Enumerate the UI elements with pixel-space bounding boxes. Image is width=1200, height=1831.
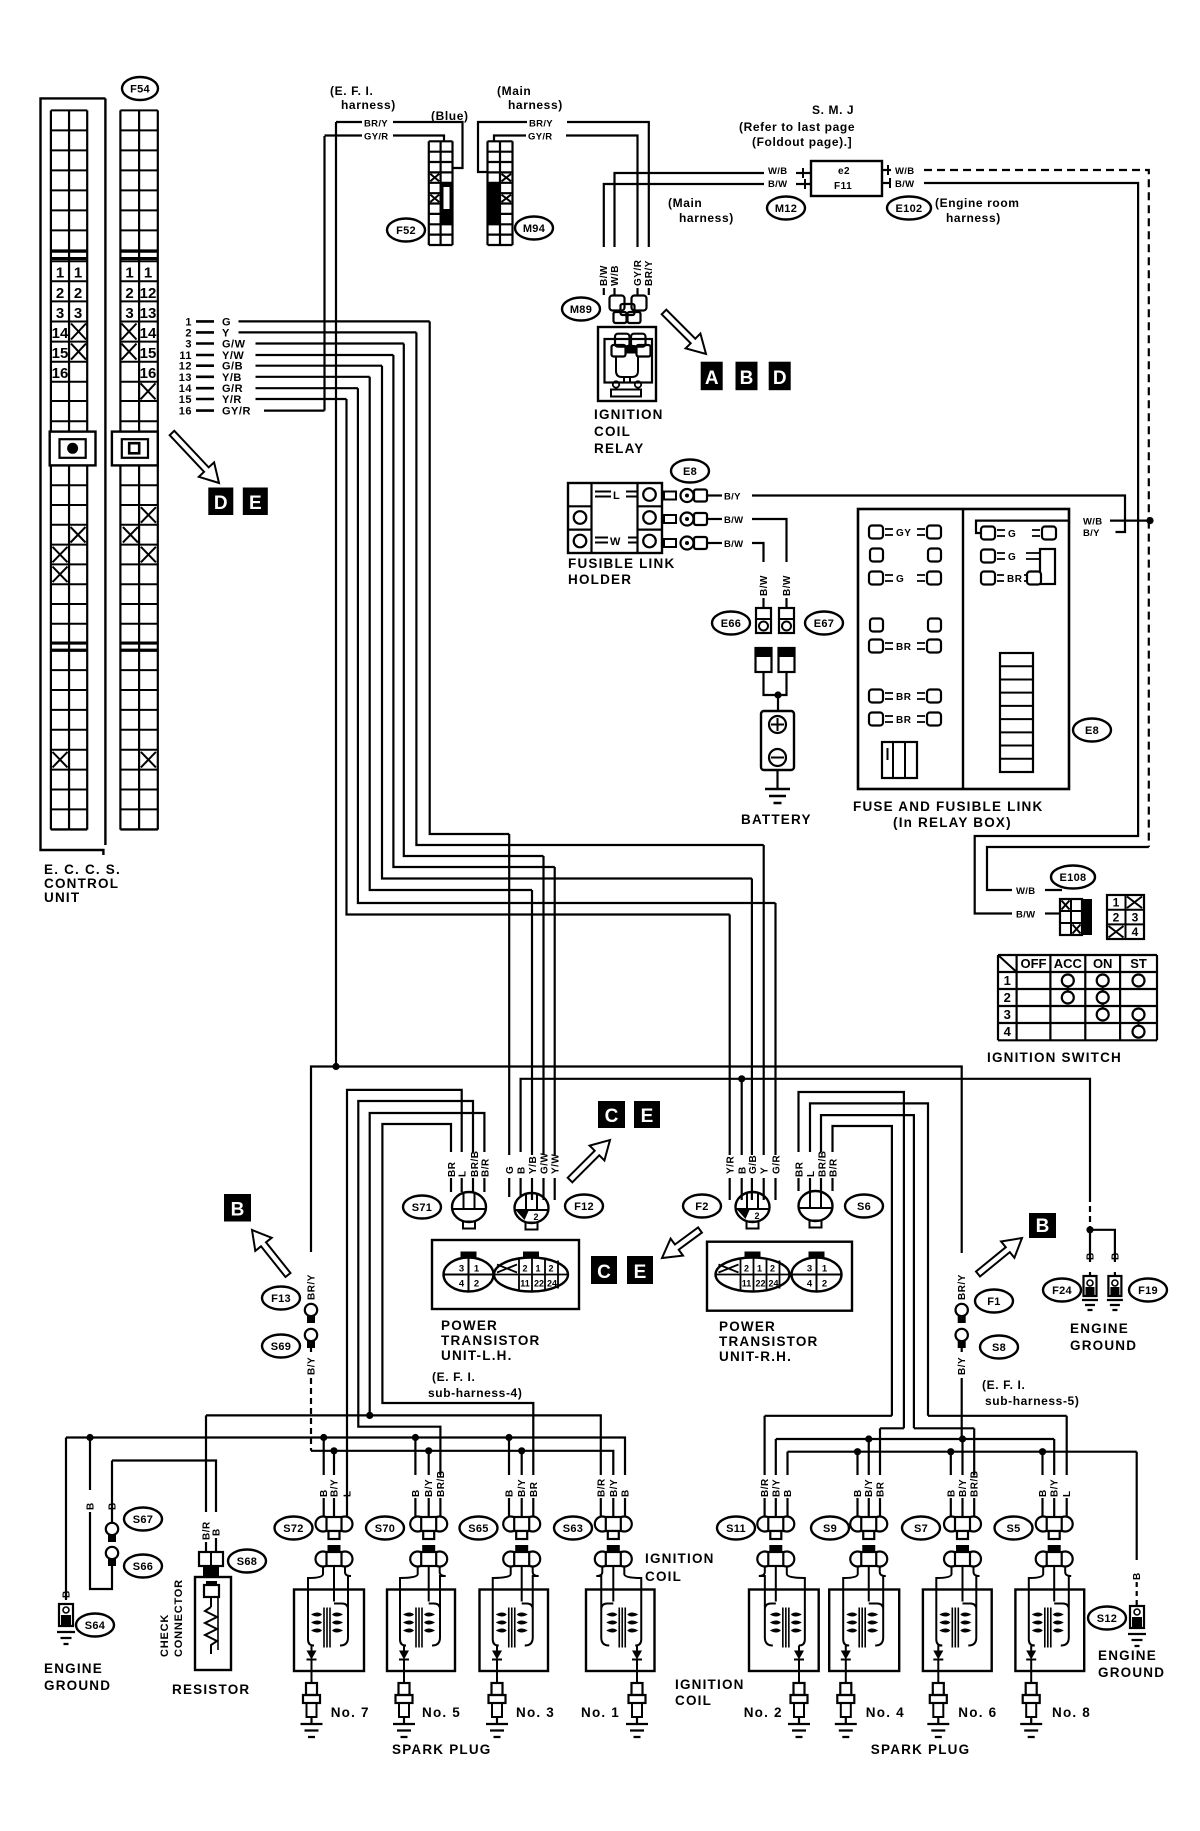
svg-text:BR/Y: BR/Y (957, 1274, 968, 1300)
svg-text:S9: S9 (823, 1523, 837, 1535)
ignition coil No.8 top connector (1036, 1545, 1073, 1567)
svg-text:B: B (517, 1166, 528, 1174)
svg-text:UNIT-R.H.: UNIT-R.H. (719, 1349, 792, 1364)
junction B net right x=857.5 (854, 1448, 861, 1455)
B/R net: resistor to S63 (left bank) (206, 1415, 601, 1475)
connector label M89 (562, 298, 600, 321)
connector label F13 (262, 1287, 300, 1310)
svg-text:(Engine room: (Engine room (935, 196, 1020, 210)
callout box E (right) (627, 1256, 653, 1284)
connector label F12 (565, 1195, 603, 1218)
svg-text:B: B (853, 1489, 864, 1497)
svg-text:E: E (249, 493, 262, 514)
wire from S67 chain to resistor B pin (112, 1461, 216, 1513)
svg-text:C: C (597, 1262, 611, 1283)
ground connector S12 (1128, 1602, 1146, 1646)
svg-text:harness): harness) (946, 211, 1001, 225)
svg-text:RESISTOR: RESISTOR (172, 1682, 250, 1697)
callout box D (769, 362, 791, 391)
junction BR/Y bus to line (332, 1063, 339, 1070)
svg-text:COIL: COIL (675, 1693, 712, 1708)
B branch through S67/S66 to resistor (89, 1438, 91, 1491)
bullet connector F1 (956, 1304, 968, 1323)
E.C.C.S. control unit connector outline (left strip outer box) (41, 98, 106, 855)
svg-text:B: B (411, 1489, 422, 1497)
ignition key switch connector grid (1107, 895, 1144, 939)
bracket joining right fuses (1040, 549, 1055, 584)
callout box A (701, 362, 723, 391)
connector S63 (595, 1517, 632, 1540)
svg-text:B/Y: B/Y (771, 1479, 782, 1497)
svg-text:S69: S69 (271, 1341, 291, 1353)
callout box B (left) (224, 1194, 251, 1222)
ECCS connector right strip pin grid (120, 110, 157, 829)
svg-text:3: 3 (1004, 1007, 1011, 1022)
svg-text:GROUND: GROUND (1070, 1338, 1137, 1353)
junction W/B at S.M.J drop (1146, 517, 1153, 524)
fuse and fusible link box (in relay box) (858, 509, 1069, 789)
junction B net x=509 (505, 1434, 512, 1441)
svg-text:W/B: W/B (768, 166, 787, 177)
svg-text:14: 14 (52, 325, 69, 342)
svg-text:COIL: COIL (645, 1569, 682, 1584)
S71 wires up + n-links to coil drop legs (347, 1090, 462, 1475)
svg-text:G: G (1008, 552, 1016, 563)
svg-text:15: 15 (52, 345, 69, 362)
junction B/R net to S71 leg (366, 1412, 373, 1419)
svg-text:B: B (1036, 1216, 1050, 1237)
connector label S5 (995, 1517, 1033, 1540)
svg-text:2: 2 (770, 1264, 775, 1274)
B/Y net (right bank) (776, 1438, 1054, 1440)
svg-text:S67: S67 (133, 1514, 153, 1526)
svg-text:22: 22 (534, 1279, 544, 1289)
ground terminal F24 (1082, 1272, 1098, 1310)
connector label S6 (845, 1195, 883, 1218)
W/B wire continuing down to E108 (1148, 521, 1150, 847)
3-slot connector at bottom of fuse box (882, 742, 917, 778)
svg-text:B/Y: B/Y (724, 492, 741, 503)
S.M.J right stubs W/B B/W (882, 169, 891, 171)
BR/Y distribution line (line 1) (311, 1067, 962, 1253)
wire BR/Y from harness labels down to BR/Y distribution line (335, 122, 337, 1067)
svg-text:F19: F19 (1138, 1285, 1158, 1297)
svg-text:1: 1 (125, 265, 133, 282)
svg-text:IGNITION: IGNITION (675, 1677, 745, 1692)
svg-text:2: 2 (534, 1212, 539, 1222)
connector label S66 (124, 1555, 162, 1578)
spark plug under ignition coil No.6 (927, 1671, 949, 1737)
svg-text:GROUND: GROUND (1098, 1665, 1165, 1680)
svg-text:sub-harness-4): sub-harness-4) (428, 1386, 522, 1400)
junction B/Y net right x=868.75 (865, 1435, 872, 1442)
lower fusible link connectors above battery (756, 648, 772, 672)
svg-text:1: 1 (757, 1264, 762, 1274)
connector label S12 (1088, 1607, 1126, 1630)
ignition coil No.3 top connector (503, 1545, 540, 1567)
connector label E8 (671, 460, 709, 483)
svg-text:3: 3 (125, 305, 133, 322)
svg-text:B/Y: B/Y (424, 1479, 435, 1497)
arrow to B (left) (252, 1230, 291, 1277)
power transistor unit R.H. (707, 1242, 852, 1311)
svg-text:(Foldout page).]: (Foldout page).] (752, 135, 852, 149)
svg-text:2: 2 (822, 1279, 827, 1290)
svg-text:S8: S8 (992, 1342, 1006, 1354)
svg-text:HOLDER: HOLDER (568, 572, 632, 587)
svg-text:1: 1 (74, 265, 82, 282)
svg-text:E8: E8 (1085, 725, 1099, 737)
connector label F24 (1043, 1279, 1081, 1302)
svg-text:GY/R: GY/R (222, 406, 251, 418)
svg-text:S66: S66 (133, 1561, 153, 1573)
svg-text:No. 2: No. 2 (744, 1705, 783, 1720)
callout box E (243, 488, 268, 516)
svg-text:sub-harness-5): sub-harness-5) (985, 1394, 1079, 1408)
connector label S65 (460, 1517, 498, 1540)
svg-text:G: G (505, 1166, 516, 1174)
junction B net right x=950.8 (947, 1448, 954, 1455)
svg-text:e2: e2 (838, 166, 850, 177)
svg-text:16: 16 (179, 406, 192, 418)
svg-text:1: 1 (1113, 896, 1120, 910)
svg-text:D: D (773, 368, 787, 389)
svg-text:Y/R: Y/R (222, 394, 242, 406)
svg-text:L: L (458, 1170, 469, 1177)
ignition coil No.2 top connector (757, 1545, 794, 1567)
svg-text:16: 16 (52, 365, 69, 382)
svg-text:BR/Y: BR/Y (529, 119, 553, 130)
svg-text:BR: BR (447, 1161, 458, 1177)
connector label S67 (124, 1508, 162, 1531)
connector M89 (610, 296, 647, 324)
svg-text:BR/Y: BR/Y (644, 260, 655, 286)
connector label S63 (554, 1517, 592, 1540)
wire B/Y from E8 to fuse box (707, 494, 722, 496)
svg-text:L: L (1062, 1490, 1073, 1497)
svg-text:BR: BR (1007, 574, 1023, 585)
svg-text:E: E (634, 1262, 647, 1283)
junction B net right x=1042.5 (1039, 1448, 1046, 1455)
drops from right nets to coil connectors (868, 1439, 870, 1475)
svg-text:2: 2 (1113, 911, 1120, 925)
connector label S9 (811, 1517, 849, 1540)
B/Y wire from S69 to left coil B/Y line (310, 1348, 312, 1352)
connector label E108 (1051, 866, 1095, 889)
connector S65 (503, 1517, 540, 1540)
svg-text:B/W: B/W (724, 515, 743, 526)
svg-text:G/B: G/B (748, 1155, 759, 1174)
svg-text:E108: E108 (1060, 872, 1087, 884)
svg-text:24: 24 (768, 1279, 778, 1289)
svg-text:B/W: B/W (724, 539, 743, 550)
svg-text:CONTROL: CONTROL (44, 876, 119, 891)
svg-text:E. C. C. S.: E. C. C. S. (44, 862, 121, 877)
connector E108 grid (1060, 899, 1092, 935)
S.M.J box (811, 161, 882, 196)
svg-text:OFF: OFF (1021, 956, 1047, 971)
spark plug under ignition coil No.4 (835, 1671, 857, 1737)
connector M94 grid (488, 141, 513, 245)
svg-text:14: 14 (140, 325, 157, 342)
svg-text:S70: S70 (375, 1523, 395, 1535)
svg-text:No. 4: No. 4 (866, 1705, 905, 1720)
connector label F52 (387, 219, 425, 242)
svg-text:IGNITION SWITCH: IGNITION SWITCH (987, 1050, 1122, 1065)
svg-text:Y: Y (760, 1167, 771, 1174)
svg-text:Y/B: Y/B (528, 1156, 539, 1174)
svg-text:ST: ST (1130, 956, 1147, 971)
svg-text:B/R: B/R (596, 1478, 607, 1497)
B wire branch to F19 (1090, 1230, 1115, 1262)
svg-text:C: C (605, 1106, 619, 1127)
power transistor unit L.H. (432, 1240, 579, 1309)
svg-text:B/R: B/R (480, 1158, 491, 1177)
ECCS right strip mounting hole (112, 432, 158, 466)
svg-text:GY/R: GY/R (528, 132, 552, 143)
svg-text:S71: S71 (412, 1202, 432, 1214)
svg-text:G/W: G/W (540, 1152, 551, 1174)
svg-text:B/Y: B/Y (1050, 1479, 1061, 1497)
svg-text:BR: BR (529, 1481, 540, 1497)
fuse BR row5 (869, 640, 941, 654)
svg-text:B/W: B/W (759, 575, 770, 596)
bullet connector S69 (305, 1329, 317, 1348)
svg-text:RELAY: RELAY (594, 441, 645, 456)
W/B bracket over top-right fuse (976, 521, 1069, 533)
svg-text:BR: BR (896, 642, 912, 653)
junction B/Y net x=521.7 (518, 1447, 525, 1454)
connector S68 (199, 1552, 223, 1576)
svg-text:2: 2 (1004, 990, 1011, 1005)
svg-text:BR/Y: BR/Y (307, 1274, 318, 1300)
svg-text:ENGINE: ENGINE (44, 1661, 103, 1676)
svg-text:E66: E66 (721, 618, 741, 630)
S6 wires up + n-links to right coil drop legs (799, 1092, 904, 1428)
svg-text:G: G (896, 574, 904, 585)
svg-text:POWER: POWER (441, 1318, 498, 1333)
svg-text:M89: M89 (570, 304, 592, 316)
battery ground (776, 770, 778, 789)
svg-text:BR/B: BR/B (818, 1151, 829, 1177)
svg-text:ACC: ACC (1054, 956, 1083, 971)
svg-text:ENGINE: ENGINE (1098, 1648, 1157, 1663)
svg-text:2: 2 (755, 1211, 760, 1221)
connector label S70 (366, 1517, 404, 1540)
connector S11 (757, 1517, 794, 1540)
svg-text:4: 4 (807, 1279, 813, 1290)
connector label F1 (975, 1290, 1013, 1313)
connector S72 (316, 1517, 353, 1540)
spark plug under ignition coil No.2 (788, 1671, 810, 1737)
bullet connector S66 (106, 1547, 118, 1566)
E8 terminal B/Y (664, 489, 707, 502)
svg-text:W/B: W/B (895, 166, 914, 177)
ECCS right strip pin numbers and X marks (122, 265, 157, 383)
svg-text:SPARK PLUG: SPARK PLUG (392, 1742, 492, 1757)
B/Y wire from S8 down to right coil B/Y line (961, 1348, 963, 1352)
svg-text:24: 24 (547, 1279, 557, 1289)
connector label F2 (683, 1195, 721, 1218)
wires dropping to F12 connector (G, G/W, Y/W, Y/B) (508, 834, 510, 1155)
svg-text:GY/R: GY/R (364, 132, 388, 143)
svg-text:IGNITION: IGNITION (594, 407, 664, 422)
svg-text:B: B (231, 1200, 245, 1221)
svg-text:COIL: COIL (594, 424, 631, 439)
svg-text:B: B (212, 1528, 223, 1536)
svg-text:BR: BR (795, 1161, 806, 1177)
callout box B (right) (1029, 1213, 1056, 1238)
svg-text:B: B (62, 1590, 73, 1598)
svg-text:S5: S5 (1006, 1523, 1020, 1535)
svg-text:B/Y: B/Y (330, 1479, 341, 1497)
svg-text:F11: F11 (834, 181, 852, 192)
connector label F54 (122, 77, 158, 100)
svg-text:B: B (621, 1489, 632, 1497)
spark plug under ignition coil No.8 (1020, 1671, 1042, 1737)
svg-text:UNIT-L.H.: UNIT-L.H. (441, 1348, 513, 1363)
svg-text:BR/B: BR/B (970, 1471, 981, 1497)
ignition coil No.1 top connector (595, 1545, 632, 1567)
connector label S64 (76, 1614, 114, 1637)
wire B/W from E8 down to E66 (707, 542, 722, 544)
svg-text:B/W: B/W (782, 575, 793, 596)
fuse BR right (981, 572, 1041, 586)
svg-text:3: 3 (807, 1264, 812, 1275)
connector label M94 (515, 217, 553, 240)
svg-text:B/Y: B/Y (517, 1479, 528, 1497)
junction B/Y net right x=962.5 (959, 1435, 966, 1442)
B wire from B net to S64 engine ground (65, 1438, 67, 1601)
svg-text:15: 15 (179, 394, 192, 406)
svg-text:F13: F13 (271, 1293, 291, 1305)
bullet connector S67 (106, 1523, 118, 1542)
svg-text:harness): harness) (341, 98, 396, 112)
svg-text:B/W: B/W (1016, 910, 1035, 921)
connector label E66 (712, 612, 750, 635)
svg-text:(E. F. I.: (E. F. I. (982, 1378, 1025, 1392)
connector label S11 (717, 1517, 755, 1540)
svg-text:1: 1 (474, 1264, 480, 1275)
svg-text:SPARK PLUG: SPARK PLUG (871, 1742, 971, 1757)
junction B/Y net x=334 (330, 1447, 337, 1454)
fuse BR row6 (869, 690, 941, 704)
svg-text:F54: F54 (130, 84, 150, 96)
B/R to S11 and L to S5 line (right bank) (765, 1415, 892, 1417)
svg-text:4: 4 (1132, 925, 1139, 939)
connector S7 (944, 1517, 981, 1540)
fusible link holder (568, 483, 662, 553)
svg-text:CHECK: CHECK (159, 1614, 171, 1657)
svg-text:GY: GY (896, 528, 911, 539)
fuse G left (869, 572, 941, 586)
svg-text:22: 22 (755, 1279, 765, 1289)
connector S70 (410, 1517, 447, 1540)
svg-text:S11: S11 (726, 1523, 746, 1535)
drops from nets to left coil connectors (323, 1438, 325, 1476)
arrow from ECCS to D E (170, 431, 219, 483)
svg-text:BR: BR (876, 1481, 887, 1497)
svg-text:2: 2 (74, 285, 82, 302)
wire B/W from E8 down to E67 (707, 518, 722, 520)
ECCS connector left strip pin grid (51, 110, 87, 829)
junction B line to F2 (738, 1075, 745, 1082)
svg-text:TRANSISTOR: TRANSISTOR (719, 1334, 819, 1349)
fuse GY (869, 526, 941, 540)
svg-text:S12: S12 (1097, 1613, 1117, 1625)
svg-text:No. 8: No. 8 (1052, 1705, 1091, 1720)
connector label E67 (805, 612, 843, 635)
fusible link stack (1000, 653, 1033, 772)
svg-text:ON: ON (1093, 956, 1113, 971)
callout box D (208, 488, 233, 516)
svg-text:(In RELAY BOX): (In RELAY BOX) (893, 815, 1012, 830)
svg-text:E8: E8 (683, 466, 697, 478)
arrow to C E (top) (568, 1140, 610, 1182)
svg-text:L: L (806, 1170, 817, 1177)
connector S5 (1036, 1517, 1073, 1540)
svg-text:FUSIBLE LINK: FUSIBLE LINK (568, 556, 675, 571)
svg-text:B/W: B/W (895, 179, 914, 190)
svg-text:3: 3 (459, 1264, 464, 1275)
svg-text:13: 13 (140, 305, 157, 322)
svg-text:2: 2 (474, 1279, 479, 1290)
svg-text:S65: S65 (468, 1523, 488, 1535)
E8 terminal B/W (to E66) (664, 537, 707, 550)
B net (left bank) (66, 1438, 625, 1476)
wires joining to battery (764, 672, 787, 695)
connector S6 (799, 1191, 833, 1228)
junction B net x=90 (86, 1434, 93, 1441)
svg-text:11: 11 (742, 1279, 752, 1289)
arrow from C E to F2 (662, 1227, 702, 1258)
svg-text:B: B (740, 368, 754, 389)
ignition coil No.6 top connector (944, 1545, 981, 1567)
svg-text:S64: S64 (85, 1620, 106, 1632)
svg-text:B: B (1038, 1489, 1049, 1497)
B wire to S12 engine ground (1136, 1452, 1138, 1560)
junction B net x=415.4 (412, 1434, 419, 1441)
svg-text:B/Y: B/Y (307, 1357, 318, 1375)
svg-text:Y/B: Y/B (222, 372, 242, 384)
connector label S7 (902, 1517, 940, 1540)
svg-text:(Main: (Main (668, 196, 702, 210)
fuse G right row2 (981, 550, 1040, 564)
svg-text:S6: S6 (857, 1201, 871, 1213)
svg-text:G: G (1008, 529, 1016, 540)
svg-text:IGNITION: IGNITION (645, 1551, 715, 1566)
connector F52 grid (429, 141, 453, 245)
svg-text:(Main: (Main (497, 84, 531, 98)
svg-text:B: B (108, 1502, 119, 1510)
svg-text:BR/B: BR/B (470, 1151, 481, 1177)
svg-text:B/Y: B/Y (609, 1479, 620, 1497)
svg-text:(E. F. I.: (E. F. I. (330, 84, 373, 98)
spark plug under ignition coil No.7 (301, 1671, 323, 1737)
connector S71 (452, 1192, 486, 1229)
svg-text:4: 4 (459, 1279, 465, 1290)
svg-text:1: 1 (822, 1264, 828, 1275)
svg-text:No. 7: No. 7 (331, 1705, 370, 1720)
callout box B (736, 362, 758, 391)
svg-text:FUSE AND FUSIBLE LINK: FUSE AND FUSIBLE LINK (853, 799, 1043, 814)
junction B to grounds (1086, 1226, 1093, 1233)
junction B/Y net x=428.7 (425, 1447, 432, 1454)
svg-text:B/Y: B/Y (864, 1479, 875, 1497)
svg-text:W/B: W/B (1016, 886, 1035, 897)
fuse BR row7 (869, 713, 941, 727)
svg-text:No. 3: No. 3 (516, 1705, 555, 1720)
